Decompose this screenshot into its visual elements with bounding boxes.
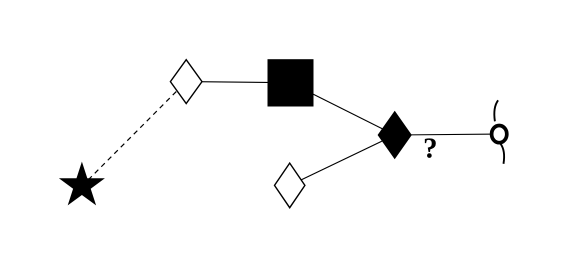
open diamond (lower residue) bbox=[275, 163, 305, 208]
wire: linkage filled square to filled diamond bbox=[290, 83, 394, 135]
wire: dashed linkage star to open diamond bbox=[82, 82, 186, 187]
open diamond (upper residue) bbox=[170, 60, 202, 104]
reducing-end circle bbox=[492, 126, 507, 143]
wire: linkage lower open diamond to filled diamond bbox=[290, 135, 395, 185]
filled square residue bbox=[268, 59, 314, 106]
reducing-end squiggle upper arc bbox=[494, 100, 498, 121]
wire: linkage filled diamond to reducing-end circle bbox=[395, 133, 499, 136]
reducing-end squiggle lower arc bbox=[501, 144, 505, 164]
label: unknown linkage question mark bbox=[425, 138, 436, 158]
wire: linkage open diamond to filled square bbox=[186, 82, 290, 83]
filled diamond residue bbox=[378, 112, 411, 159]
star (filled residue) bbox=[59, 162, 105, 206]
